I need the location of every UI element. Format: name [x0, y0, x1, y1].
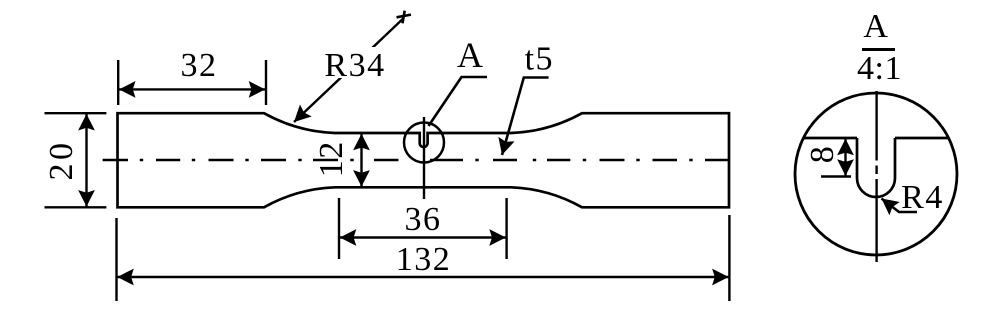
R34 leader with centre mark: [288, 11, 411, 128]
svg-text:A: A: [863, 8, 889, 45]
wire: detail vertical centreline: [875, 91, 877, 262]
svg-text:132: 132: [396, 241, 452, 278]
section label A with leader: [429, 35, 488, 126]
specimen outline (dogbone with U-notch): [118, 113, 730, 207]
t5 thickness label with leader arrow: [494, 41, 554, 158]
dimension 36: [339, 198, 507, 259]
dimension 8 in detail: [804, 138, 854, 177]
svg-text:R4: R4: [901, 179, 944, 216]
svg-text:4:1: 4:1: [857, 50, 902, 87]
svg-text:A: A: [457, 35, 485, 75]
wire: horizontal centerline of specimen: [103, 159, 729, 161]
wire: notch centre vertical line: [423, 117, 425, 199]
svg-text:36: 36: [405, 201, 442, 238]
svg-text:20: 20: [43, 140, 80, 181]
detail notch edges: [803, 138, 948, 197]
dimension 20: [43, 113, 106, 207]
svg-text:12: 12: [313, 140, 350, 177]
detail view circle: [795, 93, 957, 255]
dimension 132: [117, 215, 730, 301]
detail view title A over 4:1: [857, 8, 902, 87]
svg-text:R34: R34: [324, 47, 385, 84]
dimension 12: [313, 133, 370, 187]
dimension 32: [118, 47, 266, 105]
svg-text:32: 32: [181, 47, 218, 84]
detail callout circle A: [404, 123, 444, 163]
R4 label with leader arrow: [876, 179, 943, 216]
svg-text:8: 8: [804, 145, 841, 164]
svg-text:t5: t5: [525, 41, 554, 78]
